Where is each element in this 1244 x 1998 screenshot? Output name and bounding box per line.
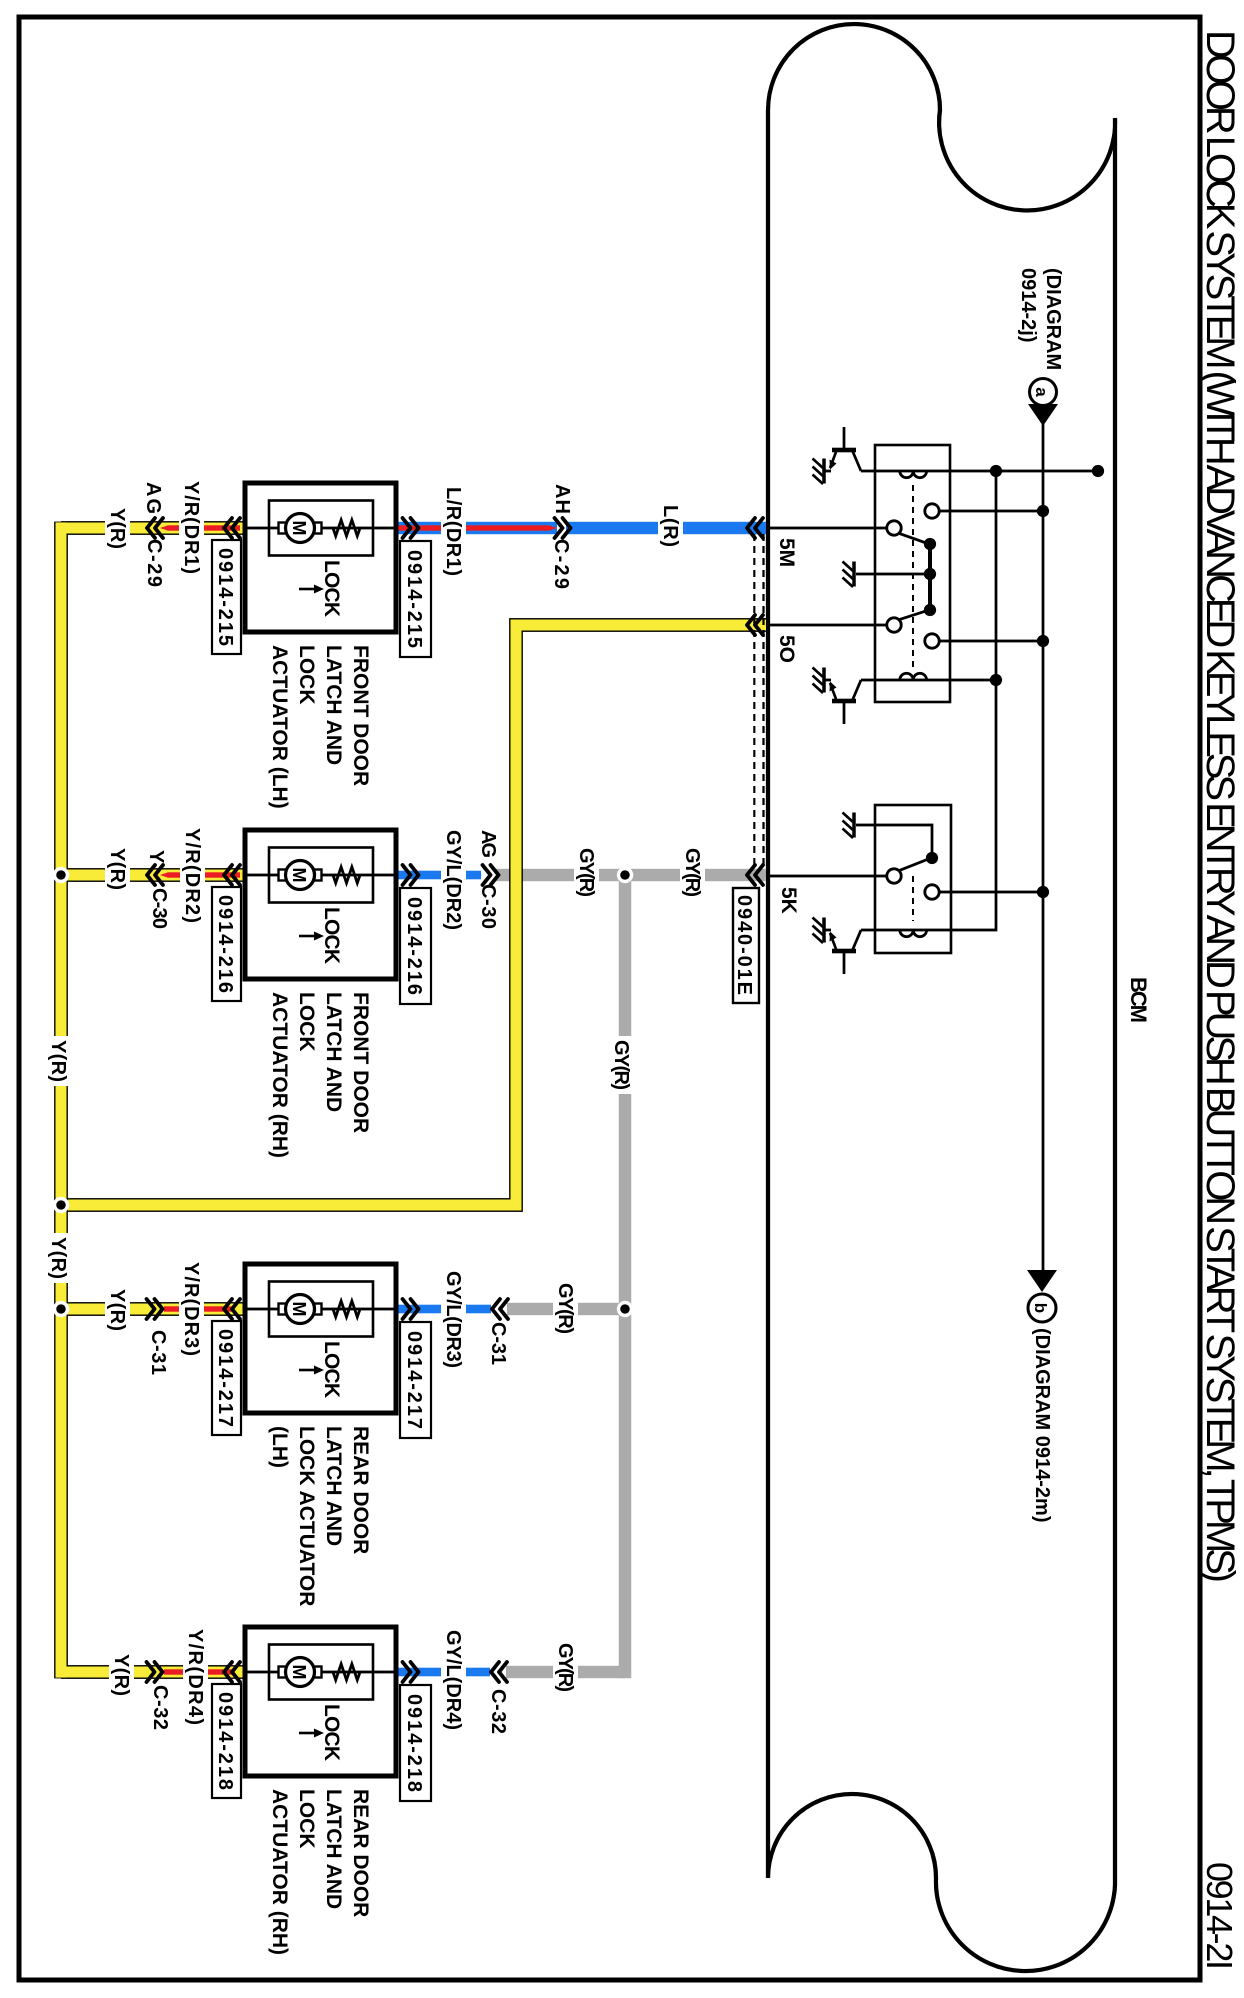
svg-text:FRONT DOOR: FRONT DOOR (349, 992, 372, 1133)
chevron C-29 bottom (147, 518, 163, 538)
svg-text:M: M (289, 868, 309, 883)
chevron BCM 5M (747, 518, 763, 538)
K1 switch B NC contact circle (925, 634, 939, 648)
junction dot gray tee at 5K riser (617, 867, 633, 883)
label AH C-29 (top) (550, 484, 573, 589)
svg-text:0914-215: 0914-215 (403, 550, 425, 648)
actuator M1 name label (268, 645, 372, 809)
junction dot a-bus x641 (1037, 635, 1049, 647)
label GY(R) gray bus (609, 1036, 634, 1094)
svg-text:REAR DOOR: REAR DOOR (349, 1426, 372, 1554)
actuator M3 inner box (269, 1282, 373, 1337)
svg-text:a: a (1032, 387, 1051, 397)
chevron C-32 top (491, 1662, 507, 1682)
svg-text:LOCK ACTUATOR: LOCK ACTUATOR (295, 1426, 318, 1606)
K1 switch A common contact (887, 521, 901, 535)
actuator M4 inner box (269, 1645, 373, 1700)
svg-text:DOOR LOCK SYSTEM (WITH ADVANCE: DOOR LOCK SYSTEM (WITH ADVANCED KEYLESS … (1198, 30, 1242, 1583)
red stripe of L/R(DR1) (397, 525, 549, 530)
wire: K1 coil2 vertical line (861, 679, 996, 682)
svg-text:GY(R): GY(R) (610, 1040, 632, 1090)
svg-text:M: M (289, 521, 309, 536)
svg-text:C-32: C-32 (149, 1685, 171, 1730)
wire GY/L(DR4): blue segment C-32 to actuator4 (397, 1668, 490, 1677)
lock direction arrow in M4 (299, 1729, 324, 1738)
svg-text:Y/R(DR1): Y/R(DR1) (180, 481, 202, 574)
svg-text:(DIAGRAM: (DIAGRAM (1042, 268, 1064, 370)
ground at Q2 emitter (813, 668, 825, 694)
chevron actuator1 top pin (403, 518, 419, 538)
label GY(R) 5K lower (574, 844, 599, 901)
actuator M1 box (245, 483, 396, 632)
red stripe Y/R(DR3) (164, 1306, 232, 1311)
lock direction arrow in M1 (299, 585, 324, 594)
wire GY(R): riser to actuator4 C-32 (506, 1666, 625, 1678)
junction dot yellow bus at actuator2 riser (53, 867, 69, 883)
yellow ground bus Y(R) (61, 522, 245, 1679)
K2 common contact (887, 869, 901, 883)
svg-text:(DIAGRAM 0914-2m): (DIAGRAM 0914-2m) (1031, 1328, 1053, 1522)
lock direction arrow in M3 (299, 1366, 324, 1375)
label Y(R) row3 (105, 1285, 130, 1335)
wire GY(R): gray distribution bus (619, 875, 631, 1672)
svg-text:L/R(DR1): L/R(DR1) (442, 487, 464, 576)
connector 0940-01E dashed boundary lines (754, 534, 763, 868)
svg-text:GY(R): GY(R) (681, 848, 703, 897)
svg-text:Y: Y (145, 850, 167, 864)
svg-text:ACTUATOR (RH): ACTUATOR (RH) (268, 1789, 291, 1955)
ground at K1 switch common (843, 562, 855, 588)
svg-text:GY/L(DR2): GY/L(DR2) (442, 830, 464, 930)
svg-text:C-29: C-29 (143, 539, 165, 587)
label C-31 (bottom) (147, 1330, 169, 1375)
chevron C-31 top (492, 1299, 508, 1319)
connector label box 0914-215 (top) (400, 541, 431, 657)
chevron actuator4 bottom pin (224, 1662, 240, 1682)
svg-text:Y/R(DR2): Y/R(DR2) (181, 828, 203, 923)
connector label box 0914-215 (bottom) (212, 540, 241, 654)
dashed linkage relay K2 (912, 876, 914, 921)
ground at K2 switch (843, 813, 855, 839)
junction dot gray bus at actuator3 riser (617, 1301, 633, 1317)
svg-text:C-32: C-32 (487, 1689, 509, 1734)
svg-text:C-31: C-31 (487, 1322, 509, 1365)
svg-text:5O: 5O (775, 635, 798, 663)
wire through actuator M3 (245, 1308, 396, 1311)
svg-text:LOCK: LOCK (320, 1704, 343, 1761)
chevron BCM 5K (747, 865, 763, 885)
svg-text:REAR DOOR: REAR DOOR (349, 1789, 372, 1917)
BCM box outline with torn S-curve ends (768, 24, 1115, 1971)
svg-text:5K: 5K (777, 887, 800, 914)
motor M1 symbol (279, 514, 322, 543)
pin line 5O inside BCM (766, 624, 887, 627)
label C-31 (top) (487, 1322, 509, 1365)
label Y(R) bus right (46, 1233, 71, 1283)
svg-text:BCM: BCM (1126, 977, 1151, 1023)
actuator M2 inner box (269, 848, 373, 903)
chevron C-29 top (555, 518, 571, 538)
K2 ground branch (856, 825, 932, 858)
svg-text:GY/L(DR4): GY/L(DR4) (442, 1630, 464, 1730)
K2 switch arm (898, 858, 931, 871)
label L(R) (658, 501, 683, 551)
label Y(R) row2 (105, 844, 130, 894)
wire through actuator M1 (245, 527, 396, 530)
wire GY(R): riser to actuator3 C-31 (507, 1303, 625, 1315)
connector label box 0914-216 (bottom) (212, 887, 241, 1001)
svg-text:0914-217: 0914-217 (214, 1329, 236, 1427)
K1 contact bar with dots (928, 544, 932, 610)
K2 switch: NO line up to a-bus (939, 891, 1043, 894)
junction dot a-bus x892 (1037, 886, 1049, 898)
svg-text:Y(R): Y(R) (47, 1040, 69, 1082)
yellow wire 5O: BCM to corner, across, down to ground bus (61, 625, 766, 1205)
red stripe Y/R(DR2) (168, 872, 240, 877)
svg-text:LOCK: LOCK (320, 560, 343, 617)
relay K1 box (875, 445, 950, 702)
svg-text:GY(R): GY(R) (554, 1643, 576, 1692)
actuator M1 inner box (269, 501, 373, 556)
svg-text:LATCH AND: LATCH AND (322, 992, 345, 1112)
junction dot coil line top end (1092, 465, 1104, 477)
wire GY/L(DR2): blue segment C-30 to actuator2 (397, 871, 481, 880)
red stripe Y/R(DR1) actuator1 ground wire (168, 525, 240, 530)
actuator M2 box (245, 830, 396, 979)
wire GY/L(DR3): blue segment C-31 to actuator3 (397, 1305, 491, 1314)
connector box 0940-01E (733, 888, 759, 1003)
connector label box 0914-218 (bottom) (212, 1684, 241, 1798)
svg-text:GY/L(DR3): GY/L(DR3) (442, 1271, 464, 1368)
svg-text:L(R): L(R) (659, 505, 681, 547)
label Y/R(DR2) (180, 824, 205, 927)
svg-text:0914-218: 0914-218 (214, 1692, 236, 1790)
junction dot K1 arm B (924, 604, 936, 616)
coil L2 (relay K1 right coil) (900, 673, 927, 680)
label GY/L(DR3) (441, 1267, 466, 1372)
junction dot K2 arm (926, 852, 938, 864)
connector label box 0914-217 (bottom) (212, 1321, 241, 1435)
pin line 5M inside BCM (766, 527, 887, 530)
svg-text:5M: 5M (775, 538, 798, 567)
motor M4 symbol (279, 1658, 322, 1687)
label Y(R) row1 (105, 504, 130, 553)
svg-text:LATCH AND: LATCH AND (322, 1789, 345, 1909)
chevron C-31 bottom (147, 1299, 163, 1319)
svg-text:0914-215: 0914-215 (214, 548, 236, 646)
svg-text:LOCK: LOCK (320, 1341, 343, 1398)
svg-text:Y(R): Y(R) (106, 848, 128, 890)
transistor Q3 (drives K2 coil L3) (824, 930, 861, 974)
K1 switch B common contact (887, 618, 901, 632)
actuator M3 name label (268, 1426, 372, 1606)
wire: K1 coil1 vertical line (861, 470, 1098, 473)
junction dot coil ctrl x680 (990, 674, 1002, 686)
svg-text:ACTUATOR (LH): ACTUATOR (LH) (268, 645, 291, 809)
svg-text:M: M (289, 1665, 309, 1680)
circle b (1028, 1294, 1056, 1322)
svg-text:Y(R): Y(R) (106, 508, 128, 549)
svg-text:C-30: C-30 (477, 884, 499, 929)
wire L(R): blue 5M BCM to C-29 (566, 522, 766, 534)
connector label box 0914-218 (top) (400, 1685, 431, 1801)
K1 switch B arm (898, 610, 929, 620)
actuator M4 box (245, 1627, 396, 1776)
label GY/L(DR4) (441, 1626, 466, 1734)
K1 ground branch (856, 573, 930, 576)
ground at Q3 emitter (813, 918, 825, 944)
label Y C-30 (bottom) (145, 850, 170, 929)
svg-text:M: M (289, 1302, 309, 1317)
svg-text:(LH): (LH) (268, 1426, 291, 1468)
chevron C-30 bottom (147, 865, 163, 885)
junction dot a-bus x511 (1037, 505, 1049, 517)
svg-text:LOCK: LOCK (295, 992, 318, 1052)
relay K2 box (875, 805, 951, 953)
junction dot coil ctrl x471 (990, 465, 1002, 477)
chevron actuator4 top pin (403, 1662, 419, 1682)
chevron actuator1 bottom pin (224, 518, 240, 538)
transistor Q1 (left, drives L1) (824, 427, 861, 471)
svg-text:Y(R): Y(R) (47, 1237, 69, 1279)
svg-text:LOCK: LOCK (295, 645, 318, 705)
label GY(R) 5K upper (680, 844, 705, 901)
svg-text:C-30: C-30 (148, 888, 170, 929)
arrow a (1028, 404, 1058, 426)
label GY(R) riser3 (553, 1279, 578, 1338)
chevron actuator3 top pin (403, 1299, 419, 1319)
label Y(R) bus left (46, 1036, 71, 1086)
actuator M2 name label (268, 992, 372, 1158)
svg-text:b: b (1031, 1303, 1050, 1313)
svg-text:Y(R): Y(R) (110, 1654, 132, 1696)
label C-32 (bottom) (149, 1685, 171, 1730)
arrow b (1027, 1270, 1057, 1292)
svg-text:Y(R): Y(R) (106, 1289, 128, 1331)
actuator M3 box (245, 1264, 396, 1413)
svg-text:GY(R): GY(R) (554, 1283, 576, 1334)
resistor in M2 (333, 867, 360, 883)
red stripe Y/R(DR4) (164, 1669, 232, 1674)
wire through actuator M4 (245, 1671, 396, 1674)
svg-text:0914-216: 0914-216 (214, 895, 236, 993)
label Y/R(DR1) (179, 477, 204, 578)
junction dot yellow bus at actuator3 riser (53, 1301, 69, 1317)
svg-text:Y/R(DR4): Y/R(DR4) (184, 1629, 206, 1725)
svg-text:AG: AG (142, 482, 164, 514)
wire GY(R): 5K gray riser BCM to C-30 (496, 869, 766, 881)
label Y(R) row4 (109, 1650, 134, 1700)
wire through actuator M2 (245, 874, 396, 877)
label L/R(DR1) (441, 483, 466, 580)
chevron actuator2 top pin (403, 865, 419, 885)
chevron BCM 5O (747, 615, 763, 635)
resistor in M4 (333, 1664, 360, 1680)
svg-text:AG: AG (477, 830, 499, 858)
label C-32 (top) (487, 1689, 509, 1734)
svg-text:C-29: C-29 (550, 539, 572, 589)
K1 switch B: NC line up to a-bus (938, 640, 1043, 643)
ground at Q1 emitter (813, 459, 825, 485)
lock direction arrow in M2 (299, 932, 324, 941)
K1 switch A arm (898, 533, 929, 544)
svg-text:C-31: C-31 (147, 1330, 169, 1375)
junction dot yellow bus at 5O riser (53, 1197, 69, 1213)
svg-text:LOCK: LOCK (295, 1789, 318, 1849)
chevron C-30 top (483, 865, 499, 885)
motor M2 symbol (279, 861, 322, 890)
transistor Q2 (right, drives L2) (824, 680, 861, 724)
label AG C-29 (bottom) (142, 482, 165, 587)
chevron C-32 bottom (147, 1662, 163, 1682)
svg-text:ACTUATOR (RH): ACTUATOR (RH) (268, 992, 291, 1158)
svg-text:Y/R(DR3): Y/R(DR3) (180, 1262, 202, 1356)
label GY(R) riser4 (553, 1639, 578, 1696)
junction dot K1 ground mid (924, 568, 936, 580)
svg-text:0914-217: 0914-217 (403, 1331, 425, 1429)
resistor in M1 (333, 520, 360, 536)
svg-text:0914-2I: 0914-2I (1199, 1862, 1240, 1970)
label Y/R(DR3) (179, 1258, 204, 1360)
wire L/R(DR1): blue with red stripe C-29 to actuator1 (397, 522, 557, 534)
svg-text:0914-2j): 0914-2j) (1017, 268, 1039, 343)
svg-text:GY(R): GY(R) (575, 848, 597, 897)
K1 switch A: NC line up to a-bus (938, 510, 1043, 513)
chevron actuator3 bottom pin (224, 1299, 240, 1319)
label GY/L(DR2) (441, 826, 466, 934)
coil L3 (relay K2 coil) (900, 930, 927, 937)
svg-text:0914-216: 0914-216 (403, 897, 425, 995)
resistor in M3 (333, 1301, 360, 1317)
actuator M4 name label (268, 1789, 372, 1955)
svg-text:LATCH AND: LATCH AND (322, 645, 345, 765)
a-bus power line (1042, 424, 1045, 1270)
connector label box 0914-217 (top) (400, 1322, 431, 1438)
svg-text:AH: AH (551, 484, 573, 514)
K2 NO contact circle (925, 885, 939, 899)
svg-text:LATCH AND: LATCH AND (322, 1426, 345, 1546)
dashed linkage relay K1 (912, 485, 914, 668)
wire: coil control line y=248 to relay K2 coil (861, 471, 996, 930)
K1 switch A NC contact circle (925, 504, 939, 518)
coil L1 (relay K1 left coil) (900, 471, 927, 478)
svg-text:0914-218: 0914-218 (403, 1694, 425, 1792)
svg-text:FRONT DOOR: FRONT DOOR (349, 645, 372, 786)
pin line 5K inside BCM (766, 875, 887, 878)
motor M3 symbol (279, 1295, 322, 1324)
label Y/R(DR4) (183, 1625, 208, 1729)
label AG C-30 (top) (477, 830, 499, 929)
circle a (1030, 379, 1057, 406)
connector label box 0914-216 (top) (400, 888, 431, 1004)
svg-text:LOCK: LOCK (320, 907, 343, 964)
junction dot K1 arm A (924, 538, 936, 550)
chevron actuator2 bottom pin (224, 865, 240, 885)
